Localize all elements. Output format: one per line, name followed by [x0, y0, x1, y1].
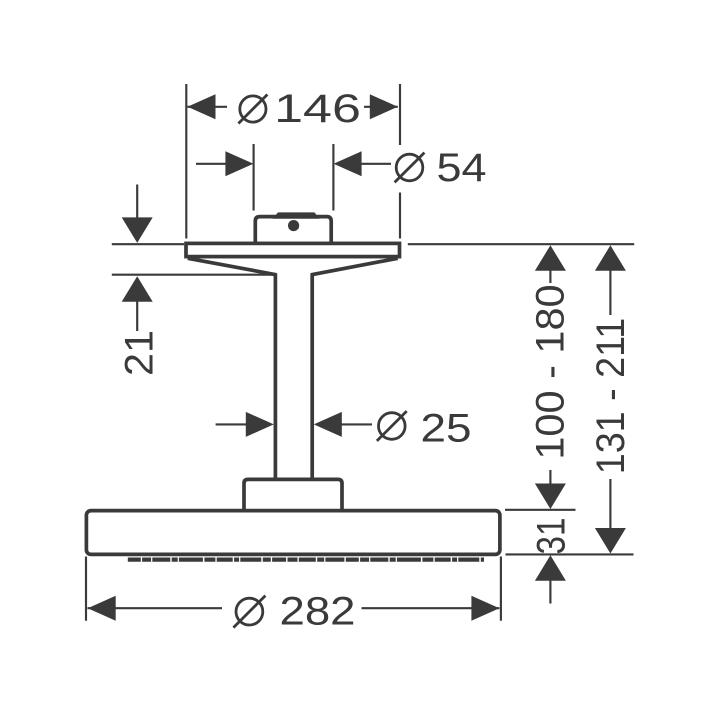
dim Ø54 label diameter symbol — [396, 154, 423, 181]
dim 21 top arrow tail — [136, 185, 138, 219]
ceiling flange plate — [186, 243, 400, 256]
pipe left wall — [274, 274, 278, 479]
dim Ø54 tail right — [361, 163, 391, 165]
dim Ø146 label diameter symbol — [240, 96, 266, 122]
connector tab — [273, 212, 320, 218]
head connector block — [244, 479, 342, 511]
svg-text:282: 282 — [280, 590, 356, 634]
svg-text:21: 21 — [117, 330, 161, 376]
flange taper right — [311, 258, 398, 275]
dim Ø25 label diameter symbol — [379, 413, 406, 440]
dim 131-211 bottom tail — [609, 479, 611, 529]
dim Ø282 line right segment — [362, 607, 500, 609]
dim Ø54 arrow left — [225, 151, 253, 176]
dim Ø282 ext line right — [500, 557, 502, 621]
dim Ø25 tail right — [341, 423, 372, 425]
dim Ø146 ext line right lower segment — [399, 193, 401, 239]
dim Ø54 ext line left — [253, 144, 255, 211]
dim Ø146 ext line left — [185, 84, 187, 239]
dim Ø25 tail left — [216, 423, 249, 425]
dim Ø282 label diameter symbol — [236, 598, 263, 625]
dim 100-180 bottom tail — [549, 470, 551, 485]
dim Ø146 line right segment — [364, 106, 398, 108]
dim Ø54 tail left — [196, 163, 228, 165]
spray face nozzles — [128, 557, 484, 561]
svg-text:146: 146 — [274, 87, 361, 131]
dim Ø146 line left segment — [188, 106, 228, 108]
svg-text:25: 25 — [421, 406, 472, 450]
dim Ø282 line left segment — [88, 607, 223, 609]
svg-text:54: 54 — [437, 146, 487, 190]
dim 131-211 arrow up — [595, 245, 626, 270]
dim 21 ext line lower — [112, 274, 272, 276]
svg-text:131 - 211: 131 - 211 — [589, 318, 633, 475]
dim 31 bottom tail — [549, 581, 551, 604]
flange taper left — [188, 258, 277, 275]
dim Ø146 ext line right upper segment — [399, 84, 401, 145]
dim Ø25 arrow left — [246, 412, 274, 437]
dim Ø146 arrow left — [188, 94, 216, 119]
connector screw dot — [288, 220, 299, 231]
dim 21 arrow up — [122, 276, 153, 302]
dim 100-180 arrow up — [535, 245, 566, 270]
head bottom ext line — [506, 553, 634, 555]
dim 21 arrow down — [122, 217, 153, 243]
dim 131-211 top tail — [609, 271, 611, 316]
dim 21 ext line upper — [112, 243, 184, 245]
dim Ø54 ext line right — [332, 144, 334, 211]
svg-text:31: 31 — [530, 518, 574, 555]
dim Ø54 arrow right — [334, 151, 362, 176]
dim 31 arrow up — [535, 555, 566, 581]
dim 100-180 arrow down — [535, 484, 566, 510]
dim Ø282 arrow right — [471, 596, 499, 621]
ceiling reference ext line right — [408, 243, 634, 245]
svg-text:100 - 180: 100 - 180 — [529, 284, 573, 459]
dim Ø146 arrow right — [370, 94, 398, 119]
dim Ø282 ext line left — [85, 557, 87, 621]
pipe right wall — [310, 274, 314, 479]
shower head body — [86, 511, 500, 555]
dim Ø25 arrow right — [314, 412, 342, 437]
ceiling connector box — [255, 217, 331, 244]
head top ext line — [505, 509, 576, 511]
dim 100-180 top tail — [549, 271, 551, 284]
dim 21 bottom arrow tail — [136, 302, 138, 332]
dim Ø282 arrow left — [88, 596, 116, 621]
dim 131-211 arrow down — [595, 528, 626, 554]
